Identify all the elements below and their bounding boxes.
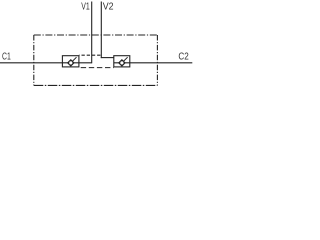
check valve CV1 seat line [71,57,77,63]
check valve CV2 body (right box) [114,56,130,67]
wire: V2 elbow horizontal to right valve [101,57,114,59]
svg-text:C1: C1 [2,51,11,62]
wire: C1 flow line (left) [0,62,92,64]
check valve CV2 seat line [122,57,128,63]
svg-text:C2: C2 [178,51,189,62]
check valve CV2 seat diamond [119,60,125,66]
wire: V1 vertical line [91,2,93,64]
check valve CV1 seat diamond [68,60,74,66]
wire: V2 vertical line [100,2,102,59]
valve assembly envelope bottom edge (dash-dot) [34,84,158,86]
check valve CV1 body (left box) [62,56,79,67]
pilot line (dashed) from left valve to V2 line [79,54,101,56]
valve assembly envelope right edge (dash-dot) [156,35,158,85]
svg-text:V1: V1 [81,2,90,13]
valve assembly envelope top edge (dash-dot) [34,34,158,36]
pilot line (dashed) lower, between valve bottoms [79,67,114,69]
check valve CV2 ball [120,61,124,65]
svg-text:V2: V2 [103,2,114,13]
background [0,0,200,90]
check valve CV1 ball [69,61,73,65]
valve assembly envelope left edge (dash-dot) [33,35,35,85]
wire: C2 flow line (right) [114,62,193,64]
